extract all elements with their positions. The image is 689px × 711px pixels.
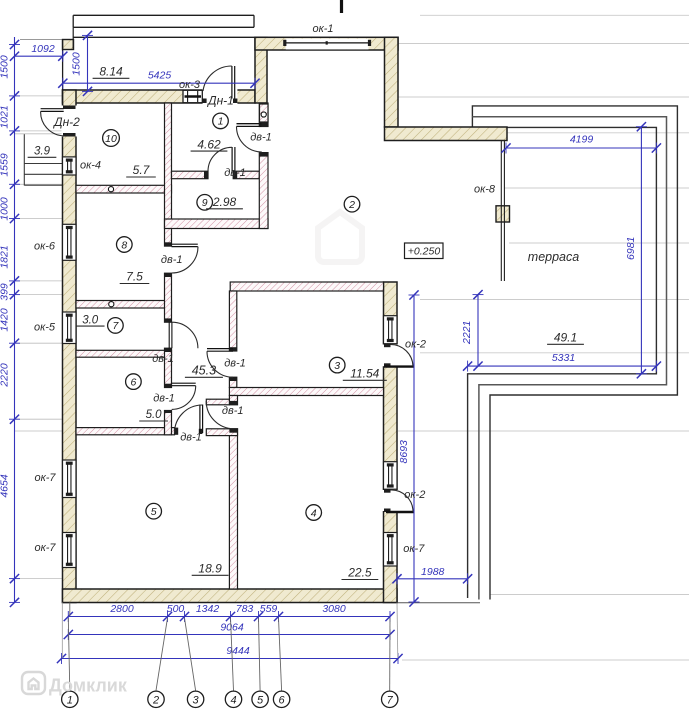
- svg-text:ок-2: ок-2: [405, 339, 426, 351]
- svg-text:1500: 1500: [71, 52, 83, 76]
- svg-text:ок-7: ок-7: [34, 542, 56, 554]
- svg-text:1021: 1021: [0, 105, 11, 128]
- svg-text:4199: 4199: [570, 134, 594, 146]
- svg-text:дв-1: дв-1: [153, 392, 175, 404]
- svg-text:2220: 2220: [0, 363, 11, 388]
- svg-text:ок-5: ок-5: [34, 322, 56, 334]
- svg-text:Домклик: Домклик: [49, 676, 128, 696]
- svg-text:дв-1: дв-1: [224, 358, 246, 370]
- svg-text:3.0: 3.0: [82, 314, 99, 326]
- svg-text:5425: 5425: [148, 69, 172, 81]
- svg-text:ок-4: ок-4: [80, 160, 101, 172]
- svg-text:500: 500: [167, 603, 185, 615]
- svg-text:45.3: 45.3: [192, 364, 216, 378]
- svg-text:1342: 1342: [196, 603, 220, 615]
- svg-text:Дн-1: Дн-1: [206, 94, 234, 108]
- svg-text:1988: 1988: [421, 566, 445, 578]
- svg-text:ок-3: ок-3: [179, 79, 201, 91]
- svg-text:6: 6: [279, 694, 286, 706]
- svg-text:дв-1: дв-1: [180, 432, 202, 444]
- svg-text:5.0: 5.0: [146, 409, 163, 421]
- svg-text:5: 5: [257, 694, 264, 706]
- svg-text:1092: 1092: [31, 43, 55, 55]
- svg-text:7.5: 7.5: [126, 270, 143, 284]
- svg-text:ок-1: ок-1: [312, 23, 333, 35]
- svg-text:8: 8: [121, 239, 127, 251]
- svg-text:22.5: 22.5: [347, 566, 372, 580]
- svg-text:1500: 1500: [0, 55, 11, 79]
- svg-text:11.54: 11.54: [350, 367, 379, 381]
- svg-text:10: 10: [105, 133, 117, 145]
- svg-text:559: 559: [260, 603, 278, 615]
- svg-text:6981: 6981: [625, 237, 637, 260]
- svg-text:1821: 1821: [0, 245, 11, 268]
- svg-text:8.14: 8.14: [99, 65, 123, 79]
- svg-text:9444: 9444: [226, 645, 250, 657]
- svg-text:2.98: 2.98: [212, 195, 237, 209]
- svg-text:ок-8: ок-8: [474, 183, 496, 195]
- svg-text:9064: 9064: [220, 622, 244, 634]
- svg-text:Дн-2: Дн-2: [52, 115, 80, 129]
- svg-text:49.1: 49.1: [554, 331, 577, 345]
- svg-text:399: 399: [0, 283, 11, 301]
- svg-text:3.9: 3.9: [34, 146, 51, 158]
- svg-text:4654: 4654: [0, 474, 11, 498]
- svg-text:2: 2: [348, 199, 355, 211]
- svg-text:3080: 3080: [322, 603, 346, 615]
- svg-text:3: 3: [334, 360, 340, 372]
- svg-text:1000: 1000: [0, 197, 11, 221]
- svg-text:дв-1: дв-1: [152, 353, 174, 365]
- svg-text:дв-1: дв-1: [222, 405, 244, 417]
- svg-text:6: 6: [130, 376, 136, 388]
- svg-text:1420: 1420: [0, 308, 11, 332]
- svg-text:2: 2: [152, 694, 159, 706]
- svg-text:4: 4: [311, 507, 317, 519]
- svg-text:1559: 1559: [0, 153, 11, 177]
- svg-text:терраса: терраса: [528, 250, 579, 264]
- svg-text:ок-7: ок-7: [34, 472, 56, 484]
- svg-text:5331: 5331: [552, 352, 575, 364]
- svg-text:1: 1: [218, 116, 224, 128]
- svg-text:ок-7: ок-7: [403, 543, 425, 555]
- svg-text:дв-1: дв-1: [250, 132, 272, 144]
- svg-text:7: 7: [387, 694, 394, 706]
- svg-text:ок-2: ок-2: [404, 489, 425, 501]
- svg-text:дв-1: дв-1: [161, 254, 183, 266]
- svg-text:5: 5: [151, 506, 157, 518]
- svg-text:дв-1: дв-1: [224, 167, 246, 179]
- svg-text:9: 9: [202, 197, 208, 209]
- svg-text:ок-6: ок-6: [34, 241, 56, 253]
- svg-text:1: 1: [67, 694, 73, 706]
- svg-text:5.7: 5.7: [133, 163, 151, 177]
- svg-text:+0.250: +0.250: [408, 245, 441, 257]
- svg-text:4: 4: [230, 694, 236, 706]
- svg-text:4.62: 4.62: [197, 137, 221, 151]
- svg-text:783: 783: [236, 603, 254, 615]
- svg-text:3: 3: [193, 694, 200, 706]
- svg-text:2800: 2800: [109, 603, 134, 615]
- svg-text:18.9: 18.9: [198, 562, 222, 576]
- svg-text:2221: 2221: [461, 321, 473, 345]
- svg-text:8693: 8693: [398, 440, 410, 464]
